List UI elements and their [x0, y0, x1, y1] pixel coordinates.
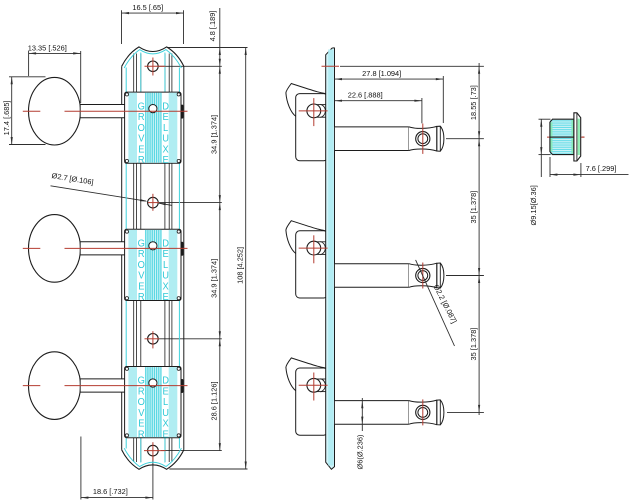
button shaft B3: [80, 379, 125, 392]
bushing flange: [574, 113, 581, 161]
worm shaft hole on cover 2: [149, 242, 157, 250]
svg-text:D: D: [162, 238, 169, 249]
post 2 hole centerline (red): [422, 263, 424, 289]
svg-text:E: E: [162, 386, 168, 397]
svg-text:R: R: [138, 292, 145, 303]
svg-text:X: X: [162, 281, 169, 292]
svg-text:E: E: [138, 418, 144, 429]
bushing centerline (red): [547, 136, 585, 138]
svg-text:E: E: [162, 112, 168, 123]
svg-text:34.9 [1.374]: 34.9 [1.374]: [210, 259, 219, 298]
plate top crown (scalloped end), cyan inner: [124, 50, 181, 68]
svg-text:U: U: [162, 408, 169, 419]
leader and label dia 2.7 screw hole: [51, 186, 147, 201]
svg-text:4.8 [.189]: 4.8 [.189]: [208, 11, 217, 42]
cover plate 3 (GROVER DELUXE): [125, 367, 184, 441]
svg-text:U: U: [162, 133, 169, 144]
button shaft boss 1: [317, 104, 327, 106]
post 3 tip cap: [437, 400, 444, 425]
svg-text:U: U: [162, 271, 169, 282]
svg-text:22.6 [.888]: 22.6 [.888]: [348, 91, 383, 100]
button shaft B1: [80, 105, 125, 118]
svg-text:28.6 [1.126]: 28.6 [1.126]: [210, 381, 219, 420]
post 3 string hole: [416, 405, 430, 419]
tuner button B1 (oval): [29, 77, 81, 145]
string post 1, side view: [335, 127, 409, 151]
svg-text:G: G: [138, 238, 145, 249]
svg-text:R: R: [138, 155, 145, 166]
dim 27.8 [1.094] post length: [335, 78, 444, 80]
string post 3, side view: [335, 401, 409, 425]
button axis crosshair 2 (red): [299, 247, 328, 249]
svg-text:X: X: [162, 418, 169, 429]
dim 7.6 [.299] bushing length: [549, 157, 551, 177]
svg-text:L: L: [163, 123, 168, 134]
svg-text:E: E: [162, 429, 168, 440]
tuner button B3 (oval): [29, 352, 81, 420]
front plate right edge: [183, 66, 185, 450]
svg-text:E: E: [138, 281, 144, 292]
dim 16.5 [.65] plate width: [122, 12, 184, 14]
post 1 string hole: [416, 132, 430, 146]
plate bottom crown, cyan inner: [124, 448, 181, 466]
svg-text:7.6 [.299]: 7.6 [.299]: [586, 164, 617, 173]
worm shaft end bar, cover 1: [181, 105, 184, 119]
svg-text:V: V: [138, 133, 145, 144]
svg-text:E: E: [138, 144, 144, 155]
svg-text:18.55 [.73]: 18.55 [.73]: [469, 85, 478, 120]
dim 22.6 [.888] hole distance: [335, 100, 422, 102]
svg-text:D: D: [162, 101, 169, 112]
gear housing 3, side view: [296, 368, 328, 435]
mounting screw holes with crosshairs: [148, 61, 159, 72]
post 1 hole centerline (red): [422, 124, 424, 154]
side view plate: [326, 48, 335, 469]
side plate screw-hole mark (red): [322, 65, 340, 67]
worm shaft end bar, cover 3: [181, 379, 184, 393]
housing wing 1: [286, 84, 327, 117]
button shaft boss 3: [317, 378, 327, 380]
housing wing 3: [286, 358, 327, 391]
svg-text:R: R: [138, 112, 145, 123]
worm shaft hole on cover 3: [149, 379, 157, 387]
svg-text:L: L: [163, 397, 168, 408]
front plate left edge: [121, 66, 123, 450]
svg-text:34.9 [1.374]: 34.9 [1.374]: [210, 115, 219, 154]
button axis crosshair 3 (red): [299, 384, 328, 386]
svg-text:X: X: [162, 144, 169, 155]
dim 18.6 [.732] button protrusion: [81, 497, 153, 499]
plate center-rib profile lines: [133, 54, 135, 463]
svg-text:G: G: [138, 375, 145, 386]
svg-text:E: E: [162, 155, 168, 166]
svg-text:V: V: [138, 408, 145, 419]
press-fit bushing detail view: [547, 113, 585, 161]
cover plate 2 (GROVER DELUXE): [125, 229, 184, 303]
svg-text:R: R: [138, 429, 145, 440]
svg-text:13.35 [.526]: 13.35 [.526]: [28, 44, 67, 53]
plate bottom crown outline: [122, 450, 184, 469]
post 2 tip cap: [437, 263, 444, 288]
dim dia 6 post diameter: [361, 398, 363, 431]
dimension extension lines, front view: [168, 47, 248, 49]
button shaft boss 2: [317, 241, 327, 243]
svg-text:O: O: [138, 123, 145, 134]
post 1 tip cap: [437, 126, 444, 151]
chained dim 18.55 / 35 / 35: [478, 63, 480, 415]
svg-text:O: O: [138, 397, 145, 408]
worm shaft hole on cover 1: [149, 105, 157, 113]
chained vertical dim line (4.8 / 34.9 / 34.9 / 28.6): [219, 8, 221, 451]
svg-text:E: E: [162, 249, 168, 260]
housing wing 2: [286, 221, 327, 254]
gear housing 2, side view: [296, 231, 328, 298]
dim dia 9.15 bushing diameter: [539, 118, 551, 120]
leader and label dia 2.2 string hole: [416, 260, 455, 346]
svg-text:O: O: [138, 260, 145, 271]
button shaft B2: [80, 242, 125, 255]
svg-text:V: V: [138, 271, 145, 282]
worm shaft end bar, cover 2: [181, 242, 184, 256]
button axis crosshair 1 (red): [299, 110, 328, 112]
svg-text:G: G: [138, 101, 145, 112]
svg-text:Ø6(Ø.236): Ø6(Ø.236): [356, 435, 365, 470]
bushing mid seam: [550, 136, 574, 138]
side view dimension lines: [340, 65, 484, 67]
post 3 hole centerline (red): [422, 399, 424, 425]
string post 2, side view: [335, 264, 409, 288]
svg-text:27.8 [1.094]: 27.8 [1.094]: [362, 69, 401, 78]
post 2 string hole: [416, 268, 430, 282]
svg-text:35 [1.378]: 35 [1.378]: [469, 328, 478, 361]
svg-text:16.5 [.65]: 16.5 [.65]: [132, 3, 163, 12]
svg-text:108 [4.252]: 108 [4.252]: [236, 247, 245, 284]
cover plate 1 (GROVER DELUXE): [125, 92, 184, 166]
plate bevel lines (cyan): [125, 68, 127, 449]
svg-text:17.4 [.685]: 17.4 [.685]: [2, 100, 11, 135]
gear housing 1, side view: [296, 94, 328, 161]
svg-text:R: R: [138, 386, 145, 397]
dim 13.35 [.526] button width: [29, 52, 81, 54]
svg-text:Ø9.15[Ø.36]: Ø9.15[Ø.36]: [529, 185, 538, 225]
svg-text:35 [1.378]: 35 [1.378]: [469, 191, 478, 224]
dim 17.4 [.685] button height: [11, 77, 13, 145]
tuner button B2 (oval): [29, 215, 81, 283]
svg-text:18.6 [.732]: 18.6 [.732]: [93, 487, 128, 496]
svg-text:Ø2.7 [Ø.106]: Ø2.7 [Ø.106]: [51, 171, 94, 187]
row centerlines (red): [23, 110, 41, 112]
svg-text:E: E: [162, 292, 168, 303]
svg-text:R: R: [138, 249, 145, 260]
svg-text:D: D: [162, 375, 169, 386]
plate top crown outline: [122, 47, 184, 66]
dim 108 [4.252] overall length: [245, 48, 247, 470]
svg-text:L: L: [163, 260, 168, 271]
